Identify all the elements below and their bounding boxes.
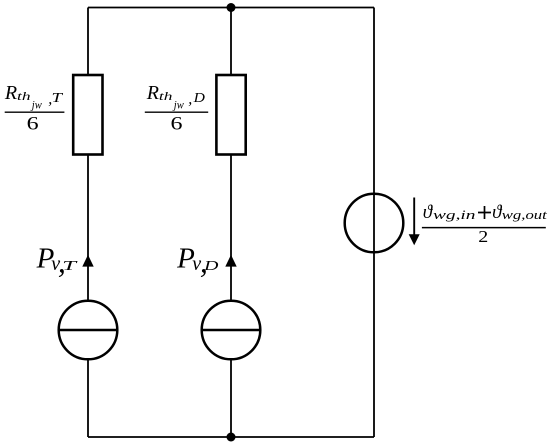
- svg-text:jw: jw: [172, 98, 184, 112]
- svg-text:,: ,: [188, 91, 192, 108]
- svg-text:jw: jw: [30, 98, 42, 112]
- svg-text:T: T: [62, 259, 78, 274]
- svg-text:wg,in: wg,in: [433, 207, 476, 222]
- svg-text:R: R: [146, 82, 159, 104]
- svg-text:R: R: [4, 82, 17, 104]
- svg-text:th: th: [159, 91, 173, 103]
- svg-text:D: D: [192, 91, 204, 106]
- svg-text:2: 2: [478, 227, 488, 246]
- svg-text:6: 6: [171, 113, 183, 134]
- svg-text:wg,out: wg,out: [502, 207, 547, 222]
- svg-text:T: T: [52, 91, 64, 106]
- svg-text:6: 6: [27, 113, 39, 134]
- svg-text:D: D: [203, 259, 219, 274]
- svg-text:th: th: [17, 91, 31, 103]
